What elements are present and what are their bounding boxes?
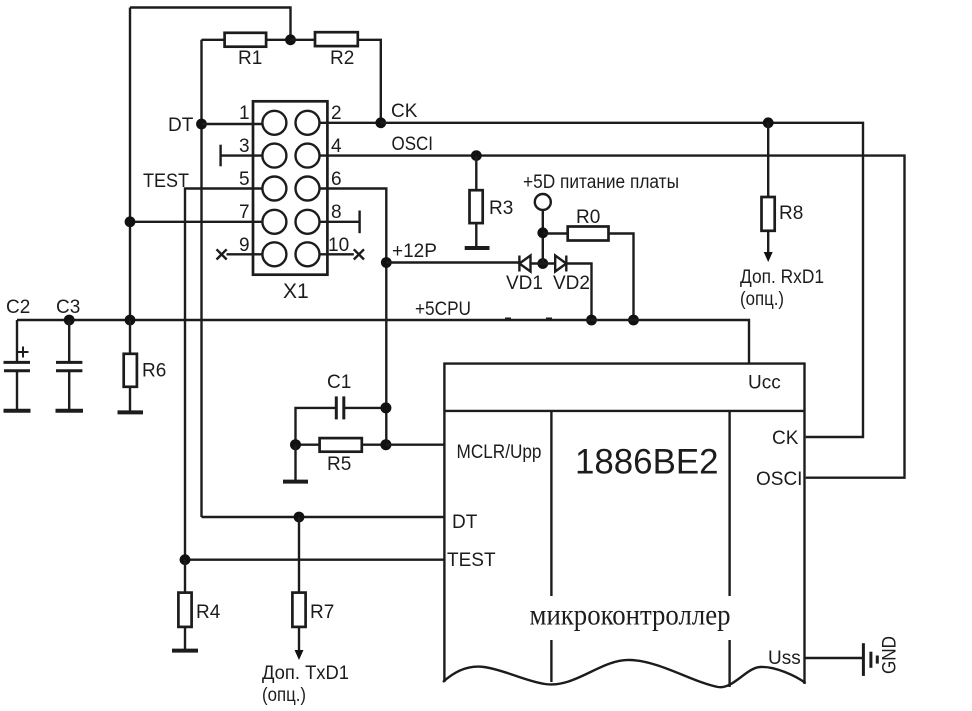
ground C2 [4, 409, 31, 413]
svg-text:9: 9 [239, 235, 250, 256]
svg-text:DT: DT [452, 512, 478, 533]
wire DT vertical [200, 40, 202, 517]
capacitor C3 [56, 320, 82, 411]
junction +5D node [537, 227, 548, 238]
capacitor C1 [296, 396, 386, 444]
svg-text:Uss: Uss [768, 648, 801, 669]
terminal +5D circle [535, 194, 551, 210]
svg-text:R8: R8 [779, 203, 803, 224]
wire pin4 OSCI net [308, 156, 905, 478]
wire pin7 to +5CPU [130, 221, 274, 223]
svg-text:R6: R6 [142, 361, 166, 382]
wire top bus from node A to R1R2 junction [130, 8, 291, 40]
connector X1 pin circles [262, 111, 319, 266]
svg-text:R1: R1 [238, 48, 262, 69]
pin8 stub with terminator [308, 211, 360, 234]
svg-text:OSCI: OSCI [756, 469, 802, 490]
junction C3 [64, 315, 75, 326]
junction pin7 [125, 216, 136, 227]
svg-text:5: 5 [239, 169, 250, 190]
resistor R2 [291, 32, 381, 123]
svg-text:8: 8 [331, 202, 342, 223]
svg-text:R4: R4 [196, 602, 221, 623]
svg-text:R3: R3 [489, 198, 513, 219]
svg-text:DT: DT [168, 115, 194, 136]
junction R1-R2 node [285, 34, 296, 45]
wire pin5 TEST net [185, 189, 274, 560]
wire left vertical +5CPU to pin7 [129, 8, 131, 321]
wire TEST row [185, 559, 444, 561]
svg-text:C2: C2 [6, 297, 30, 318]
junction R0 rail [628, 315, 639, 326]
svg-text:+5D питание платы: +5D питание платы [523, 172, 679, 193]
svg-text:Доп. TxD1: Доп. TxD1 [262, 663, 349, 684]
junction CK pin2 [375, 117, 386, 128]
svg-text:2: 2 [331, 103, 342, 124]
resistor R1 [202, 33, 291, 47]
pin10 no-connect X [308, 249, 365, 259]
wire pin1 [202, 123, 275, 125]
pin9 no-connect X [217, 249, 275, 259]
svg-text:(опц.): (опц.) [740, 289, 784, 310]
svg-text:1: 1 [239, 103, 250, 124]
svg-text:VD1: VD1 [506, 273, 543, 294]
label Доп. RxD1 (опц.) [740, 267, 824, 310]
wire +5D node vertical [542, 210, 544, 264]
junction R6 [125, 315, 136, 326]
junction DT R7 [294, 512, 305, 523]
resistor R0 [543, 227, 634, 321]
wire VD2 to +5CPU [566, 264, 591, 321]
ground GND chassis [863, 643, 877, 676]
svg-text:R0: R0 [576, 207, 600, 228]
junction R5 right [380, 439, 391, 450]
svg-text:6: 6 [331, 169, 342, 190]
junction C1 right [380, 402, 391, 413]
svg-text:TEST: TEST [143, 171, 189, 192]
microcontroller U1 body [444, 364, 804, 687]
ground R4 [172, 649, 198, 653]
svg-text:MCLR/Upp: MCLR/Upp [457, 442, 542, 463]
svg-text:+12P: +12P [392, 241, 437, 262]
svg-text:(опц.): (опц.) [262, 685, 306, 706]
ground R3 [465, 246, 490, 250]
svg-text:TEST: TEST [447, 550, 496, 571]
svg-text:3: 3 [239, 136, 250, 157]
pin3 stub with terminator [221, 145, 275, 167]
wire MCLR [386, 444, 445, 446]
arrow R7 [295, 650, 304, 660]
rail artifact marks [505, 318, 552, 321]
ground R5 [283, 445, 308, 482]
wire Uss to GND [805, 657, 864, 659]
junction DT pin1 [196, 119, 207, 130]
resistor R3 [470, 156, 483, 248]
wire diode node [531, 262, 556, 264]
plus sign C2 [18, 347, 29, 358]
wire pin6 to +12P vertical [308, 189, 387, 445]
wire DT row [202, 516, 445, 518]
svg-text:GND: GND [879, 636, 901, 674]
arrow R8 [764, 252, 773, 262]
connector X1 body [253, 101, 327, 274]
wire pin2 to CK [308, 122, 381, 124]
diode VD1 [519, 256, 530, 272]
svg-text:R2: R2 [330, 48, 354, 69]
capacitor C2 [4, 320, 31, 411]
svg-text:микроконтроллер: микроконтроллер [530, 599, 731, 632]
svg-text:+5CPU: +5CPU [415, 299, 471, 320]
junction diode node [537, 258, 548, 269]
resistor R8 [762, 122, 775, 252]
svg-text:10: 10 [328, 235, 349, 256]
resistor R7 [292, 517, 305, 650]
svg-text:R5: R5 [327, 454, 351, 475]
junction CK R8 tap [763, 117, 774, 128]
junction +12P [381, 257, 392, 268]
diode VD2 [555, 256, 566, 272]
resistor R4 [178, 560, 191, 651]
wire +12P horizontal to VD1 [386, 261, 519, 263]
svg-text:VD2: VD2 [553, 273, 590, 294]
resistor R6 [124, 320, 137, 412]
ground C3 [56, 409, 84, 413]
wire +5CPU rail [17, 320, 749, 364]
junction TEST R4 [180, 554, 191, 565]
svg-text:CK: CK [772, 428, 799, 449]
wire CK net to MCU [381, 123, 863, 437]
svg-text:7: 7 [239, 202, 250, 223]
microcontroller U1 torn bottom edge [443, 660, 806, 687]
svg-text:R7: R7 [310, 602, 334, 623]
svg-text:1886BE2: 1886BE2 [575, 443, 719, 482]
ground R6 [118, 410, 144, 414]
svg-text:Ucc: Ucc [748, 373, 781, 394]
svg-text:C3: C3 [56, 297, 80, 318]
svg-text:X1: X1 [283, 280, 309, 303]
svg-text:OSCI: OSCI [392, 134, 434, 155]
svg-text:Доп. RxD1: Доп. RxD1 [740, 267, 824, 288]
junction OSCI R3 tap [471, 150, 482, 161]
label Доп. TxD1 (опц.) [262, 663, 349, 706]
svg-text:4: 4 [331, 136, 342, 157]
junction VD2 rail [586, 315, 597, 326]
junction R5 left [290, 439, 301, 450]
resistor R5 [296, 438, 386, 452]
svg-text:CK: CK [391, 101, 418, 122]
svg-text:C1: C1 [327, 372, 351, 393]
